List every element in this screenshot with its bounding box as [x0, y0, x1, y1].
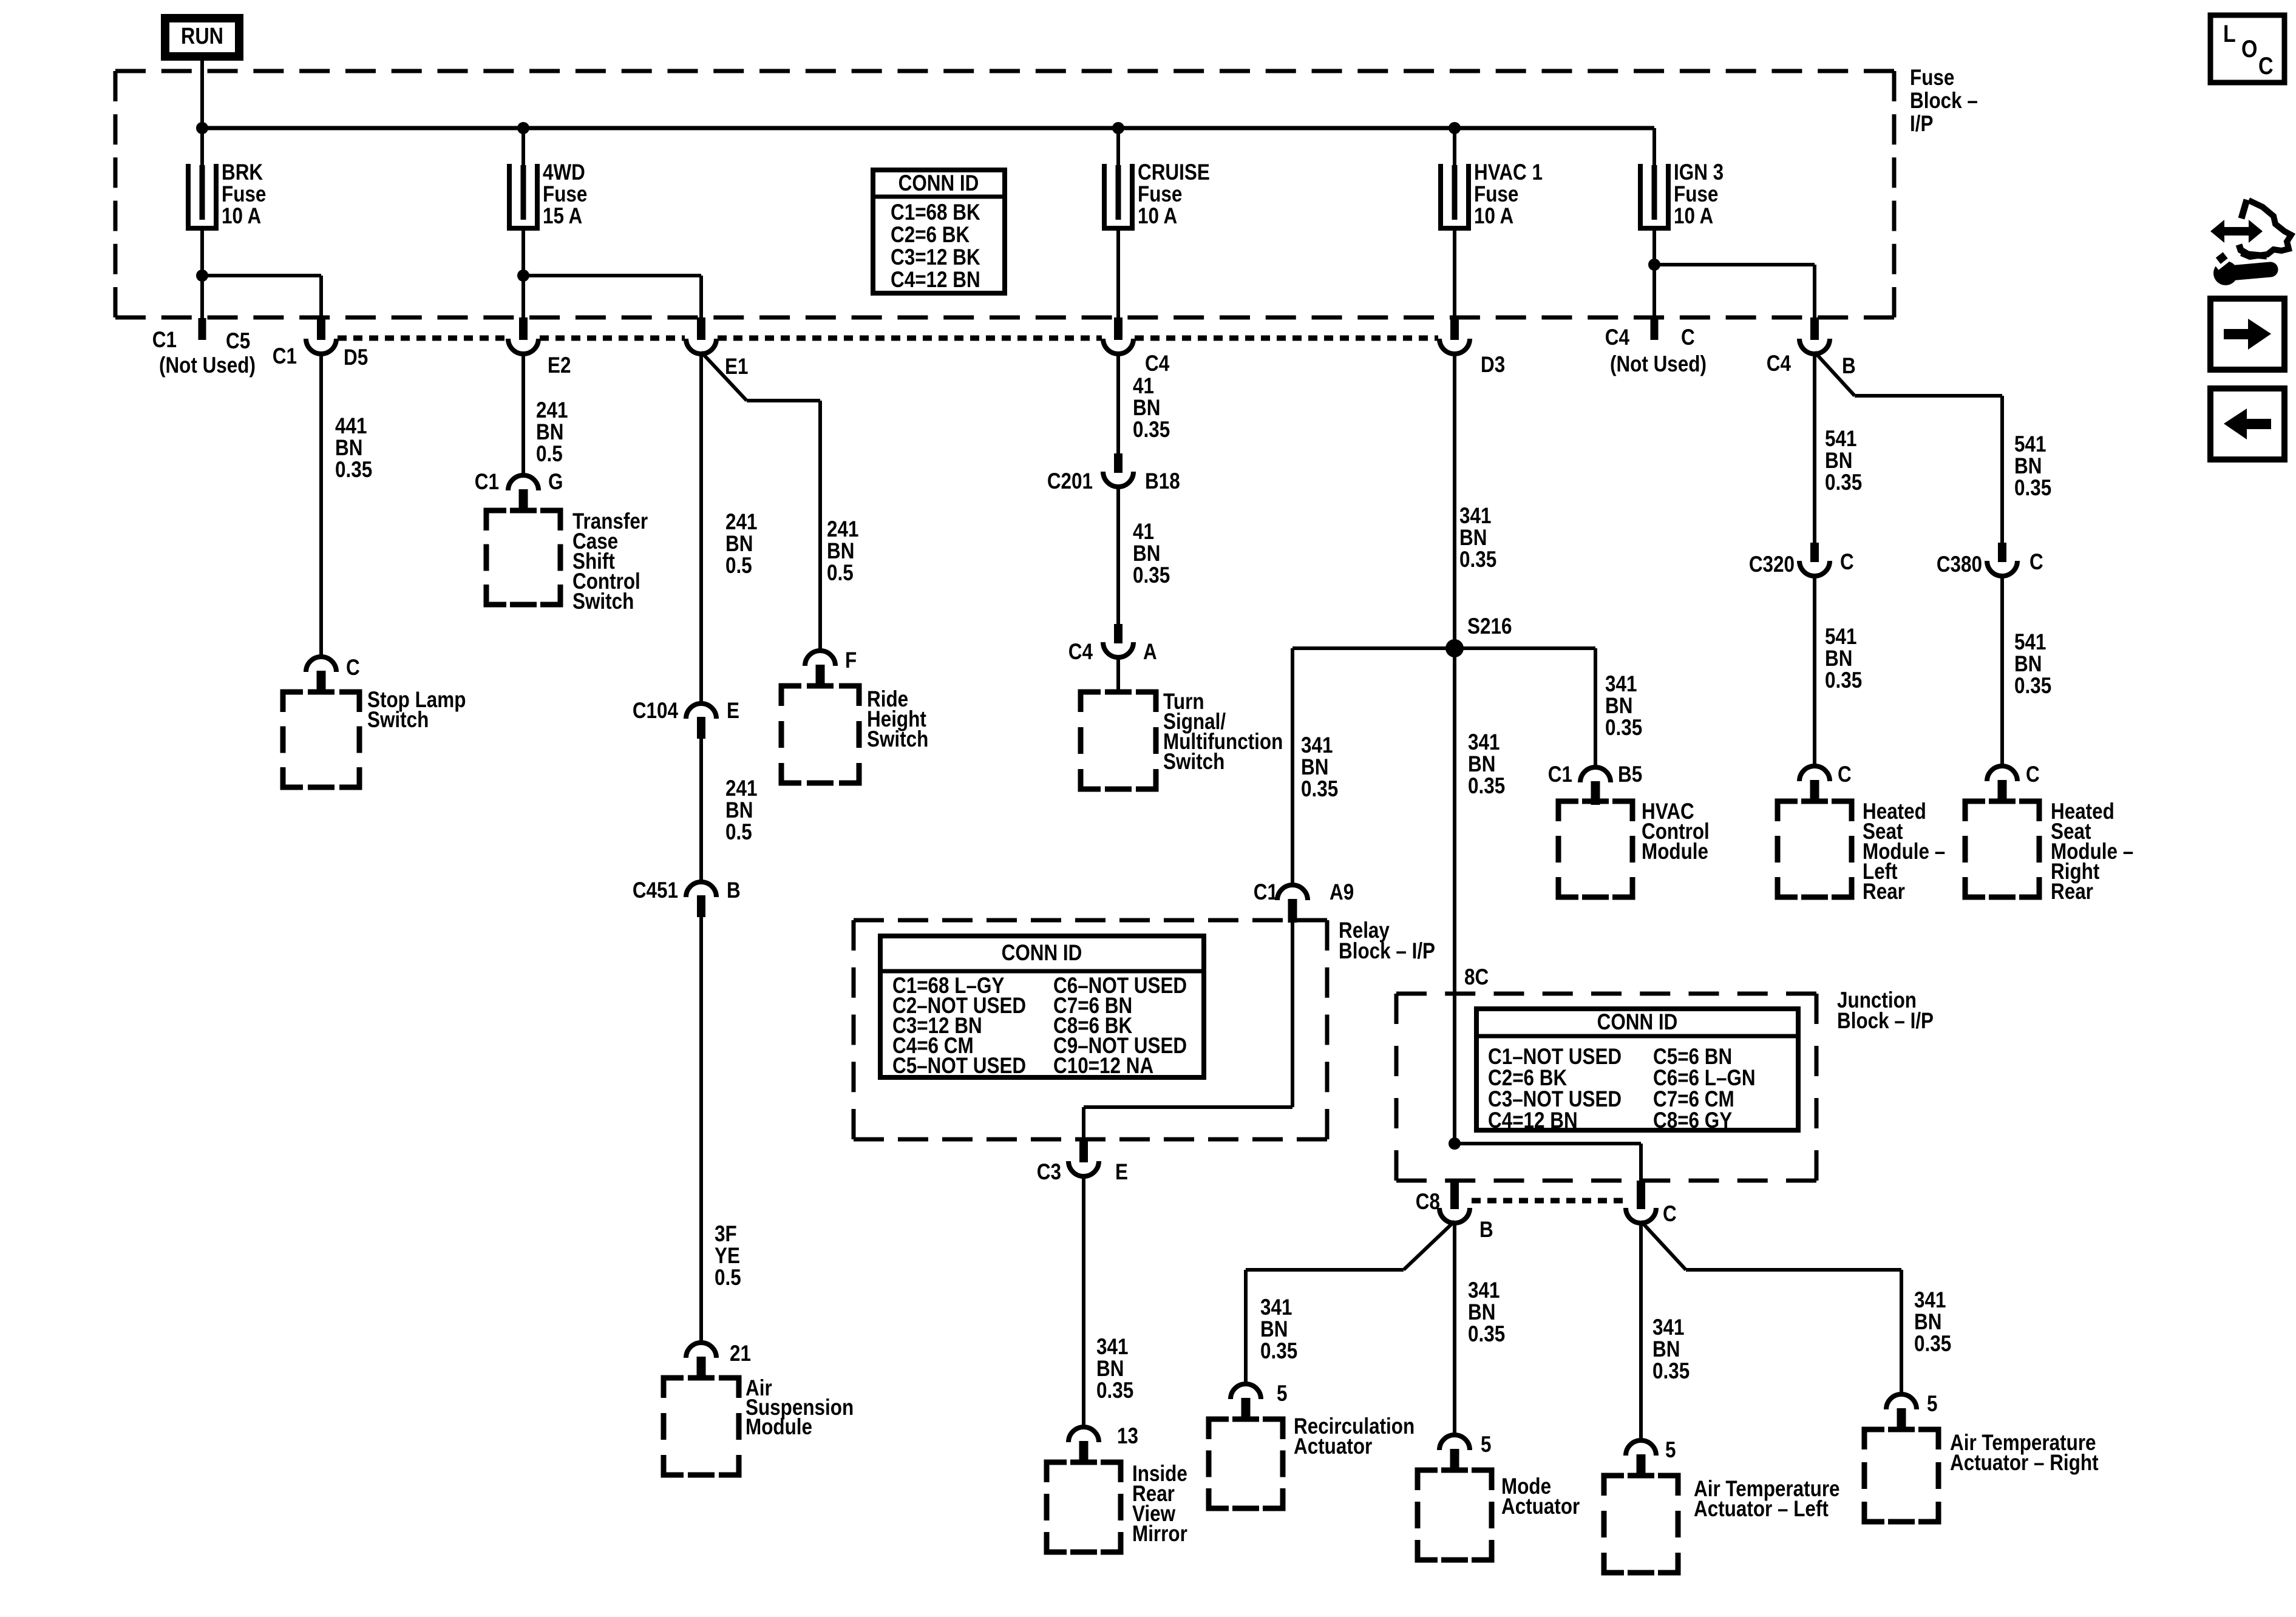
- svg-text:D5: D5: [344, 345, 368, 370]
- svg-text:C: C: [1838, 762, 1852, 787]
- svg-text:241: 241: [725, 510, 757, 535]
- svg-text:341: 341: [1468, 730, 1500, 755]
- svg-text:B: B: [1842, 354, 1856, 379]
- svg-text:BN: BN: [1301, 755, 1328, 780]
- svg-text:Switch: Switch: [1163, 750, 1224, 775]
- svg-text:BN: BN: [1652, 1337, 1680, 1362]
- svg-text:Switch: Switch: [867, 727, 928, 752]
- svg-text:Fuse: Fuse: [222, 182, 266, 207]
- svg-text:0.35: 0.35: [1914, 1332, 1951, 1357]
- svg-text:10 A: 10 A: [1674, 204, 1713, 229]
- svg-text:Block – I/P: Block – I/P: [1837, 1009, 1934, 1034]
- svg-text:Actuator – Right: Actuator – Right: [1950, 1451, 2099, 1476]
- svg-text:CONN ID: CONN ID: [1597, 1010, 1678, 1035]
- svg-text:BN: BN: [1468, 752, 1495, 777]
- svg-text:5: 5: [1927, 1392, 1937, 1417]
- svg-text:0.5: 0.5: [827, 561, 854, 586]
- svg-text:C4: C4: [1145, 351, 1169, 376]
- svg-text:BN: BN: [1825, 449, 1852, 473]
- svg-text:341: 341: [1468, 1278, 1500, 1303]
- svg-text:Actuator: Actuator: [1501, 1494, 1580, 1519]
- svg-text:5: 5: [1277, 1381, 1287, 1406]
- svg-text:341: 341: [1914, 1288, 1946, 1313]
- svg-text:241: 241: [827, 517, 858, 542]
- svg-text:BN: BN: [2014, 454, 2042, 479]
- svg-text:41: 41: [1133, 520, 1154, 544]
- svg-text:8C: 8C: [1464, 965, 1489, 990]
- svg-text:241: 241: [536, 398, 568, 423]
- svg-text:C104: C104: [633, 699, 678, 724]
- svg-text:Block – I/P: Block – I/P: [1339, 939, 1435, 964]
- svg-text:A9: A9: [1330, 880, 1354, 905]
- svg-text:C4: C4: [1068, 640, 1093, 665]
- svg-text:BN: BN: [1133, 396, 1160, 421]
- svg-text:C1: C1: [1254, 880, 1278, 905]
- svg-text:Module: Module: [1642, 839, 1708, 864]
- svg-text:0.35: 0.35: [1096, 1378, 1133, 1403]
- svg-text:0.35: 0.35: [1825, 668, 1862, 693]
- svg-text:0.35: 0.35: [335, 458, 372, 483]
- svg-text:E: E: [1115, 1160, 1128, 1185]
- svg-text:C8: C8: [1416, 1190, 1440, 1215]
- svg-text:BN: BN: [1468, 1300, 1495, 1325]
- svg-text:C451: C451: [633, 878, 678, 903]
- svg-text:341: 341: [1652, 1315, 1684, 1340]
- svg-text:C: C: [2029, 550, 2043, 575]
- svg-text:BN: BN: [725, 532, 753, 557]
- svg-text:G: G: [548, 470, 563, 495]
- svg-text:C1: C1: [273, 344, 297, 369]
- svg-text:IGN 3: IGN 3: [1674, 160, 1724, 185]
- svg-text:341: 341: [1605, 672, 1637, 697]
- svg-text:C: C: [2258, 52, 2274, 79]
- svg-text:0.35: 0.35: [1468, 774, 1505, 799]
- svg-text:Mirror: Mirror: [1132, 1522, 1187, 1547]
- svg-text:HVAC 1: HVAC 1: [1474, 160, 1543, 185]
- svg-text:0.5: 0.5: [715, 1266, 741, 1290]
- svg-text:B: B: [1479, 1218, 1493, 1242]
- svg-text:C3: C3: [1037, 1160, 1061, 1185]
- svg-text:BN: BN: [2014, 652, 2042, 677]
- svg-text:C5: C5: [226, 329, 250, 354]
- svg-text:0.5: 0.5: [725, 554, 752, 578]
- svg-text:0.35: 0.35: [1468, 1322, 1505, 1347]
- svg-text:BN: BN: [1914, 1310, 1941, 1335]
- svg-text:BN: BN: [335, 436, 362, 461]
- svg-text:Fuse: Fuse: [1474, 182, 1518, 207]
- svg-text:C4=12 BN: C4=12 BN: [1488, 1108, 1578, 1133]
- svg-text:I/P: I/P: [1910, 112, 1933, 137]
- svg-text:BRK: BRK: [222, 160, 263, 185]
- svg-text:541: 541: [1825, 625, 1856, 649]
- svg-text:C380: C380: [1937, 552, 1982, 577]
- svg-text:0.5: 0.5: [536, 442, 563, 467]
- svg-text:BN: BN: [1260, 1317, 1288, 1342]
- svg-text:541: 541: [2014, 630, 2046, 655]
- svg-text:C: C: [1663, 1202, 1677, 1227]
- svg-text:C4: C4: [1767, 351, 1791, 376]
- svg-text:10 A: 10 A: [1474, 204, 1513, 229]
- svg-text:C1=68 BK: C1=68 BK: [891, 200, 980, 225]
- svg-text:21: 21: [730, 1341, 751, 1366]
- svg-text:Switch: Switch: [367, 708, 429, 733]
- svg-text:Actuator: Actuator: [1294, 1434, 1372, 1459]
- svg-text:Rear: Rear: [2051, 880, 2093, 904]
- svg-text:E: E: [727, 699, 739, 724]
- svg-text:5: 5: [1665, 1438, 1676, 1463]
- svg-text:5: 5: [1481, 1432, 1491, 1457]
- svg-text:4WD: 4WD: [543, 160, 585, 185]
- svg-text:BN: BN: [1133, 541, 1160, 566]
- svg-text:CONN ID: CONN ID: [898, 171, 979, 196]
- svg-text:Switch: Switch: [572, 589, 634, 614]
- svg-text:O: O: [2241, 35, 2257, 62]
- svg-text:0.35: 0.35: [2014, 476, 2051, 501]
- svg-text:B18: B18: [1145, 469, 1180, 494]
- svg-text:Actuator – Left: Actuator – Left: [1694, 1497, 1829, 1522]
- svg-text:541: 541: [1825, 427, 1856, 452]
- svg-text:(Not Used): (Not Used): [1610, 352, 1707, 377]
- svg-text:0.35: 0.35: [2014, 674, 2051, 699]
- svg-text:341: 341: [1096, 1335, 1128, 1360]
- svg-text:C4: C4: [1605, 325, 1629, 350]
- svg-text:C5–NOT USED: C5–NOT USED: [892, 1054, 1026, 1079]
- svg-text:341: 341: [1260, 1295, 1292, 1320]
- svg-text:10 A: 10 A: [1138, 204, 1177, 229]
- svg-text:C3=12 BK: C3=12 BK: [891, 245, 980, 270]
- svg-text:Module: Module: [746, 1415, 812, 1440]
- svg-text:BN: BN: [1096, 1357, 1124, 1381]
- svg-text:Fuse: Fuse: [1674, 182, 1718, 207]
- svg-text:0.35: 0.35: [1652, 1359, 1690, 1384]
- svg-text:B: B: [727, 878, 741, 903]
- svg-text:0.35: 0.35: [1133, 418, 1170, 442]
- svg-text:0.5: 0.5: [725, 820, 752, 845]
- svg-text:0.35: 0.35: [1825, 470, 1862, 495]
- svg-text:D3: D3: [1481, 353, 1505, 378]
- svg-text:BN: BN: [536, 420, 563, 445]
- svg-text:BN: BN: [1605, 694, 1632, 719]
- svg-text:C1: C1: [475, 470, 499, 495]
- svg-text:CRUISE: CRUISE: [1138, 160, 1210, 185]
- svg-text:C320: C320: [1749, 552, 1795, 577]
- svg-text:C: C: [1840, 550, 1854, 575]
- svg-text:A: A: [1143, 640, 1157, 665]
- svg-text:541: 541: [2014, 432, 2046, 457]
- svg-text:CONN ID: CONN ID: [1002, 941, 1082, 966]
- svg-text:341: 341: [1301, 733, 1333, 758]
- svg-text:C201: C201: [1047, 469, 1093, 494]
- svg-text:13: 13: [1117, 1424, 1138, 1449]
- svg-text:C: C: [1681, 325, 1695, 350]
- svg-text:F: F: [845, 648, 857, 673]
- svg-text:YE: YE: [715, 1244, 740, 1269]
- svg-text:Block –: Block –: [1910, 89, 1978, 114]
- svg-text:41: 41: [1133, 374, 1154, 399]
- svg-text:C4=12 BN: C4=12 BN: [891, 268, 980, 293]
- svg-text:E1: E1: [725, 354, 748, 379]
- svg-text:C1: C1: [152, 328, 177, 353]
- svg-text:341: 341: [1459, 504, 1491, 529]
- svg-text:(Not Used): (Not Used): [159, 353, 256, 378]
- svg-text:441: 441: [335, 414, 367, 439]
- svg-text:C: C: [2026, 762, 2040, 787]
- svg-text:BN: BN: [827, 539, 854, 564]
- svg-text:0.35: 0.35: [1260, 1339, 1297, 1364]
- svg-text:C1: C1: [1548, 762, 1572, 787]
- svg-text:3F: 3F: [715, 1222, 737, 1247]
- svg-text:RUN: RUN: [181, 24, 223, 49]
- svg-text:L: L: [2223, 19, 2236, 47]
- svg-text:Fuse: Fuse: [1138, 182, 1182, 207]
- svg-text:E2: E2: [548, 353, 571, 378]
- svg-text:241: 241: [725, 776, 757, 801]
- svg-text:BN: BN: [1825, 646, 1852, 671]
- svg-text:Fuse: Fuse: [1910, 66, 1954, 90]
- svg-text:S216: S216: [1467, 614, 1512, 639]
- svg-text:C: C: [346, 656, 360, 680]
- svg-text:0.35: 0.35: [1605, 716, 1642, 741]
- svg-text:Rear: Rear: [1863, 880, 1905, 904]
- svg-text:C2=6 BK: C2=6 BK: [891, 223, 970, 248]
- svg-text:BN: BN: [1459, 526, 1487, 551]
- svg-text:C10=12 NA: C10=12 NA: [1053, 1054, 1153, 1079]
- svg-text:0.35: 0.35: [1301, 777, 1338, 802]
- svg-text:10 A: 10 A: [222, 204, 261, 229]
- svg-text:BN: BN: [725, 798, 753, 823]
- svg-text:0.35: 0.35: [1133, 563, 1170, 588]
- svg-text:B5: B5: [1618, 762, 1642, 787]
- svg-text:Fuse: Fuse: [543, 182, 587, 207]
- svg-text:C8=6 GY: C8=6 GY: [1653, 1108, 1732, 1133]
- svg-text:15 A: 15 A: [543, 204, 582, 229]
- svg-text:0.35: 0.35: [1459, 547, 1496, 572]
